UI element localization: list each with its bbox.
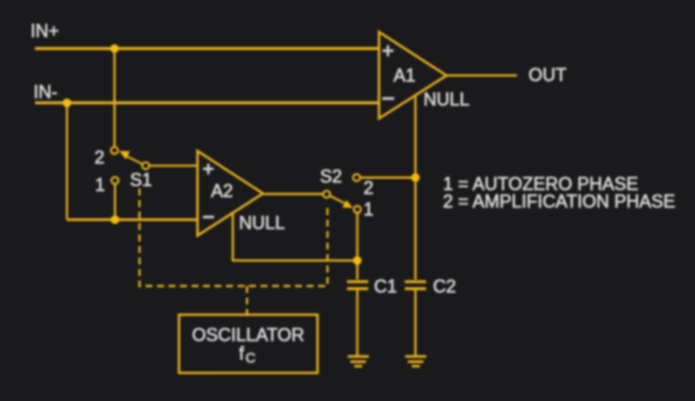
- svg-text:2: 2: [95, 148, 105, 168]
- capacitor C1: [347, 282, 368, 289]
- svg-text:NULL: NULL: [239, 213, 285, 233]
- svg-text:2 = AMPLIFICATION PHASE: 2 = AMPLIFICATION PHASE: [443, 192, 675, 212]
- wire A2 null pin down: [233, 213, 357, 261]
- op-amp A1 triangle: [379, 32, 447, 119]
- node junction A2 null / C1: [353, 256, 362, 265]
- ground (C2): [405, 356, 426, 366]
- svg-text:S2: S2: [320, 166, 342, 186]
- wire IN+ tap down to S1 contact 2: [113, 49, 115, 148]
- wire lower rail to A2 inverting input: [67, 218, 198, 221]
- ground (C1): [348, 356, 369, 366]
- wire A2 output to S2 pole: [263, 193, 323, 195]
- svg-text:C2: C2: [433, 277, 456, 297]
- oscillator U1 box: [179, 315, 318, 373]
- svg-text:IN-: IN-: [34, 82, 58, 102]
- node junction IN+ tap: [110, 44, 119, 53]
- svg-text:A2: A2: [211, 181, 233, 201]
- capacitor C2: [405, 282, 426, 289]
- svg-text:C1: C1: [374, 277, 397, 297]
- svg-text:1: 1: [364, 200, 374, 220]
- svg-text:S1: S1: [130, 170, 152, 190]
- svg-text:1: 1: [95, 175, 105, 195]
- node junction lower rail: [111, 215, 120, 224]
- op-amp A2 triangle: [198, 151, 264, 236]
- wire S2 contact 2 to A1 null net: [360, 177, 415, 179]
- svg-text:C: C: [246, 350, 256, 366]
- switch S2: [323, 174, 361, 213]
- node junction A1 null / S2-2: [411, 173, 420, 182]
- svg-text:f: f: [239, 344, 245, 364]
- wire C2 to ground: [414, 290, 416, 356]
- wire A1 output to OUT: [447, 74, 518, 76]
- wire S1 pole to A2 non-inverting input: [149, 165, 197, 167]
- wire IN+ rail: [35, 47, 379, 50]
- op-amp A1 input polarity marks: [382, 45, 393, 56]
- svg-text:OUT: OUT: [529, 65, 567, 85]
- svg-text:NULL: NULL: [424, 90, 470, 110]
- op-amp A2 input polarity marks: [203, 164, 214, 175]
- wire oscillator control dashed net: [140, 189, 328, 316]
- wire C1 to ground: [356, 290, 358, 356]
- wire IN- rail: [35, 101, 379, 104]
- wire S1 contact 1 to lower rail: [114, 184, 116, 220]
- svg-text:2: 2: [364, 178, 374, 198]
- node junction IN- tap: [63, 99, 72, 108]
- switch S1: [111, 147, 149, 184]
- wire A1 null pin down to C2: [414, 95, 416, 280]
- svg-text:IN+: IN+: [31, 21, 60, 41]
- wire IN- tap down left: [66, 103, 68, 220]
- svg-text:A1: A1: [394, 66, 416, 86]
- svg-text:OSCILLATOR: OSCILLATOR: [192, 325, 304, 345]
- wire S2 contact 1 down to C1: [356, 213, 358, 280]
